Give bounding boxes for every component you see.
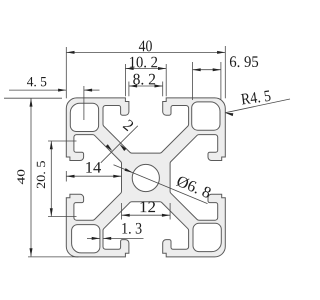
dim 6.95: dimension line <box>193 69 221 71</box>
label 14 <box>86 162 101 173</box>
dim 12: extension lines <box>121 203 123 220</box>
arrowheads dim 1.3 (outside) <box>92 237 100 240</box>
arrowheads dim 40 top <box>66 51 74 54</box>
arrowheads dim 10.2 <box>125 67 133 70</box>
dim 8.2: dimension line <box>129 85 163 87</box>
dim 4.5: extension line <box>83 86 85 120</box>
arrowhead R4.5 <box>225 113 233 116</box>
arrowheads dim 14 <box>66 175 74 178</box>
dim 4.5: dimension line + tails <box>9 89 66 91</box>
dim 40 left: dimension line <box>30 98 32 256</box>
label diameter 6.8 <box>176 177 211 198</box>
dim 40 left: extension lines <box>4 97 62 99</box>
dim 1.3: dimension line + tails <box>87 237 100 239</box>
arrowhead diameter 6.8 <box>125 168 133 173</box>
dim 12: dimension line <box>122 214 171 216</box>
label R4.5 <box>241 90 271 104</box>
dim 20.5: dimension line <box>50 141 52 217</box>
label 6.95 <box>230 56 258 67</box>
dim 8.2: extension lines <box>128 82 130 97</box>
label 8.2 <box>133 74 155 85</box>
dim 10.2: dimension line <box>125 68 166 70</box>
leader diameter 6.8 <box>114 165 208 204</box>
dim 20.5: extension lines <box>48 140 77 142</box>
label 20.5 <box>37 161 45 188</box>
arrowheads dim 6.95 <box>193 68 201 71</box>
label 12 <box>140 202 155 213</box>
arrowheads wall 2 <box>120 144 127 151</box>
arrowheads dim 8.2 <box>129 85 137 88</box>
label 1.3 <box>122 223 141 234</box>
leader wall thickness 2 <box>101 126 138 163</box>
dim 40 top: dimension line <box>66 51 225 53</box>
arrowheads dim 4.5 (outside) <box>58 89 66 92</box>
arrowheads dim 20.5 <box>50 141 53 149</box>
extrusion profile body <box>66 98 225 257</box>
label 2 <box>123 119 133 131</box>
label 40 left <box>17 170 24 185</box>
dim 14: extension line <box>65 171 67 182</box>
arrowheads dim 12 <box>122 214 130 217</box>
label 40 top <box>139 41 152 52</box>
arrowheads dim 40 left <box>30 98 33 106</box>
label 4.5 <box>27 77 46 86</box>
dim 10.2: extension lines <box>124 64 126 96</box>
label 10.2 <box>130 57 157 68</box>
dim 14: dimension line <box>66 175 121 177</box>
dim 6.95: extension lines <box>192 62 194 100</box>
dim 40 top: extension lines <box>65 47 67 98</box>
leader R4.5 <box>225 99 290 113</box>
